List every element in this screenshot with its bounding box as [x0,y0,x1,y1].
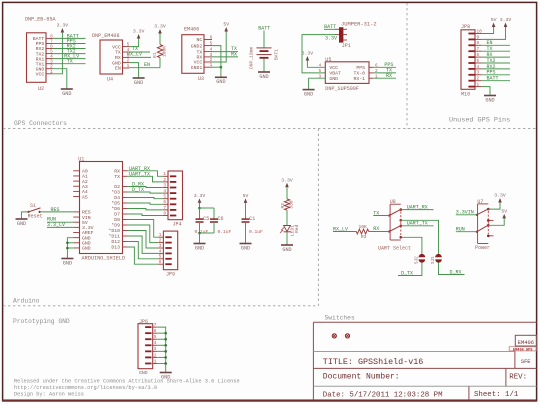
wire net RUN to U1 5V pin [47,221,73,223]
svg-text:BAT1: BAT1 [273,49,279,60]
wire net RX R3 to U8 [369,231,390,233]
svg-text:RX_LV: RX_LV [127,52,142,58]
wire LED1 to ground [286,232,288,245]
svg-text:BATT: BATT [324,24,336,30]
wire U1.D5 to JP4 pin6 [127,203,163,204]
connector U2 DNP_EB-85A [27,33,47,83]
EM406 GPS strip [509,347,536,351]
wire JP8 pin1 to ground [481,87,490,96]
wire U1.D10 to JP9 pin3 [127,231,158,249]
wire net TX to U8 [373,215,389,217]
svg-text:VCC: VCC [329,65,338,71]
wire net PPS from U5 [373,66,396,68]
svg-text:3.3V: 3.3V [325,36,337,42]
svg-text:3.3VIN: 3.3VIN [456,210,474,216]
svg-text:Document Number:: Document Number: [323,372,400,381]
wire U4 GND [129,63,139,78]
svg-text:10K: 10K [359,224,368,230]
svg-text:5: 5 [319,69,322,74]
svg-text:A2: A2 [82,179,88,185]
wire net 3.3V to JP1 and down to U5 VBAT [302,35,335,73]
svg-text:DNP_12mm: DNP_12mm [249,47,255,69]
svg-text:EM406: EM406 [184,27,199,33]
wire net UART_RX from U8 [401,209,434,211]
wire 3.3V to caps [199,203,201,208]
ground at U3 [215,76,227,78]
wire U1.D8 to JP9 pin1 [127,220,158,238]
capacitor C6 0.1uF [200,207,215,209]
svg-text:3.3V: 3.3V [500,17,512,23]
svg-text:6: 6 [210,36,213,41]
svg-text:GND: GND [282,247,291,253]
wire U3 GND1 down [212,66,221,68]
wire JP8 pin9 to 3.3V [481,27,506,39]
svg-text:2: 2 [159,239,162,244]
svg-text:U1: U1 [78,156,84,162]
svg-text:D4: D4 [114,195,120,201]
svg-text:8: 8 [163,211,166,216]
wire net UART_RX U1.RX to JP4 pin1 [127,171,163,177]
svg-text:S1: S1 [30,203,36,209]
wire U1.D12 to JP9 pin5 [127,242,158,259]
ground at U2 [61,88,73,90]
svg-text:RES: RES [51,207,60,213]
junction U3 GND [220,66,223,69]
resistor R1 100K [159,34,161,45]
svg-text:RX1: RX1 [36,56,45,62]
ground at U5 [303,89,315,91]
svg-text:0.1uF: 0.1uF [249,229,263,235]
wire net BATT at JP8 [481,80,510,82]
svg-text:GND: GND [82,235,91,241]
svg-text:330: 330 [289,200,295,209]
wire U2 GND [53,69,67,89]
wire net 3.3VIN to U7 [456,214,477,216]
svg-text:D_TX: D_TX [401,270,413,276]
svg-text:TITLE: GPSShield-v16: TITLE: GPSShield-v16 [323,357,424,367]
svg-text:Arduino: Arduino [13,298,40,305]
svg-text:*D5: *D5 [111,201,120,207]
svg-text:A3: A3 [82,184,88,190]
header JP9 [163,231,177,270]
svg-text:REV:: REV: [509,373,527,381]
wire U3 GND2 to GND1 [212,46,221,68]
svg-text:2: 2 [163,178,166,183]
svg-text:6: 6 [159,260,162,265]
svg-text:PPS: PPS [356,65,365,71]
svg-text:3.3V: 3.3V [194,193,206,199]
capacitor C5 0.1uF [199,208,201,219]
wire U2 VCC to 3.3V [53,33,63,74]
svg-text:JP4: JP4 [173,222,182,228]
svg-text:3: 3 [154,347,157,352]
wire net BATT to JP1 [324,28,335,30]
svg-text:GND: GND [241,245,250,251]
svg-text:RX: RX [114,169,120,175]
svg-text:U3: U3 [198,76,204,82]
svg-text:D2: D2 [114,184,120,190]
svg-text:SFE: SFE [521,359,531,365]
ground at JP8 [484,95,496,97]
wire net D_RX from SJ1 [439,262,465,274]
svg-text:DNP_SUP500F: DNP_SUP500F [325,86,359,92]
svg-text:1: 1 [163,172,166,177]
svg-text:5V: 5V [82,220,88,226]
svg-text:http://creativecommons.org/lic: http://creativecommons.org/licenses/by-s… [14,385,157,391]
wire net RX at JP8 [481,56,510,58]
wire U1.D4 to JP4 pin5 [127,198,163,199]
ground at U1 [61,258,73,260]
svg-text:3.3V: 3.3V [302,51,314,57]
wire S1 to ground [22,212,29,219]
svg-text:4: 4 [154,341,157,346]
svg-text:TX: TX [373,210,379,216]
wire U1.D11 to JP9 pin4 [127,236,158,253]
junction U1 GND 2 [66,247,69,250]
svg-text:TX: TX [114,174,120,180]
svg-text:C5: C5 [203,216,209,222]
svg-text:GND: GND [139,370,148,376]
svg-text:SJ1: SJ1 [431,256,436,264]
svg-text:6: 6 [154,329,157,334]
capacitor C1 0.1uF [245,203,247,208]
svg-text:5: 5 [159,255,162,260]
svg-text:GND: GND [329,76,338,82]
wire U1.D13 to JP9 pin6 [127,247,158,264]
svg-text:GND: GND [112,60,121,66]
svg-text:GND: GND [36,66,45,72]
svg-text:5V: 5V [243,193,249,199]
svg-text:ARDUINO_SHIELD: ARDUINO_SHIELD [82,255,126,261]
wire net UART_TX from U8 [401,225,434,227]
wire U7 to 5V [488,218,504,225]
junction U1 GND 1 [66,242,69,245]
solder jumper SJ2 [419,254,426,257]
LED LED1 Red [286,210,288,225]
svg-text:7: 7 [163,206,166,211]
svg-text:2: 2 [477,77,480,82]
ground at LED1 [281,244,293,246]
header JP8 unused GPS pins [461,30,475,90]
svg-text:Red: Red [294,224,300,233]
wire U1.D6 to JP4 pin7 [127,209,163,210]
wire caps to ground [199,233,201,244]
svg-text:Prototyping GND: Prototyping GND [13,318,70,325]
svg-text:R2: R2 [280,203,286,209]
svg-text:5V: 5V [491,17,497,23]
svg-text:GND: GND [62,91,71,97]
svg-text:3.3V: 3.3V [82,225,94,231]
svg-text:JUMPER-31-2: JUMPER-31-2 [341,22,377,28]
svg-text:0.1uF: 0.1uF [218,229,232,235]
svg-text:1: 1 [477,83,480,88]
svg-text:TX: TX [115,50,121,56]
svg-text:U2: U2 [38,86,44,92]
svg-text:3.3V: 3.3V [133,29,145,35]
section divider dashed lines [3,128,536,130]
svg-text:*D3: *D3 [111,190,120,196]
svg-text:*D9: *D9 [111,223,120,229]
svg-text:R1: R1 [152,52,158,58]
solder jumper SJ1 [435,254,442,257]
svg-text:1: 1 [159,233,162,238]
ground at C1 [240,243,252,245]
svg-text:EN: EN [115,66,121,72]
svg-text:GND2: GND2 [191,43,203,49]
ground at BAT1 [258,71,270,73]
wire net D_TX from SJ2 [398,262,422,275]
svg-text:7: 7 [154,323,157,328]
svg-text:A0: A0 [82,169,88,175]
svg-text:EM406 GPS: EM406 GPS [513,348,533,352]
svg-text:D13: D13 [111,245,120,251]
svg-text:VIN: VIN [82,215,91,221]
svg-text:U5: U5 [325,57,331,63]
EM406 part box [515,335,536,346]
wire net TX at JP8 [481,50,510,52]
svg-text:RX: RX [197,55,203,61]
svg-text:GND: GND [485,97,494,103]
junction caps top [198,207,201,210]
svg-text:6: 6 [477,53,480,58]
wire net D_RX U1.D2 to JP4 pin3 [127,187,163,188]
svg-text:BATT: BATT [33,36,45,42]
wire net RX_LV to R3 [333,231,356,233]
wire net D_TX U1.D3 to JP4 pin4 [127,192,163,193]
svg-text:D12: D12 [111,239,120,245]
wire U8 to SJ2 [401,237,422,254]
svg-text:5V: 5V [501,208,507,214]
wire net PPS at JP8 [481,74,510,76]
ground at JP6 [160,372,172,374]
wire net RUN to U7 [456,231,477,233]
svg-text:3: 3 [163,183,166,188]
svg-text:C6: C6 [218,216,224,222]
svg-text:3.3_LV: 3.3_LV [47,222,65,228]
wire net TX from U5 [373,72,396,74]
svg-text:*D11: *D11 [108,234,120,240]
svg-text:A4: A4 [82,189,88,195]
wire net RX from U3 [212,56,238,58]
svg-text:100K: 100K [162,46,168,57]
fiducial mark 2 [345,334,349,338]
svg-text:JP6: JP6 [139,319,148,325]
svg-text:RX_LV: RX_LV [333,226,348,232]
svg-text:DNP_EB-85A: DNP_EB-85A [25,17,57,23]
svg-text:5: 5 [163,195,166,200]
svg-text:Power: Power [475,245,490,251]
svg-text:RX: RX [386,73,392,79]
ground at U4 [133,77,145,79]
svg-text:3: 3 [159,244,162,249]
svg-text:Switches: Switches [325,315,355,322]
wire U5 GND [309,78,326,89]
svg-text:*D10: *D10 [108,228,120,234]
svg-text:RUN: RUN [456,226,465,232]
wire U1 GND pins bus [67,238,73,259]
svg-text:R3: R3 [361,234,367,240]
wire JP6 pins to GND bus [157,327,166,372]
wire net TX2 at JP8 [481,62,510,64]
svg-text:TX-0: TX-0 [353,71,365,77]
svg-text:EM406: EM406 [518,340,534,346]
module U5 DNP_SUP500F [325,62,369,84]
wire net UART_TX U1.TX to JP4 pin2 [127,176,163,182]
svg-text:RX2: RX2 [36,46,45,52]
svg-text:Date: 5/17/2011 12:03:28 PM: Date: 5/17/2011 12:03:28 PM [323,392,443,400]
svg-text:RX: RX [373,226,379,232]
svg-text:VCC: VCC [36,72,45,78]
resistor R3 10K [356,229,368,234]
wire net 3.3_LV to U1 3.3V pin [47,226,73,228]
svg-text:VBAT: VBAT [329,71,341,77]
svg-text:1: 1 [154,359,157,364]
wire U3 VCC to 5V [212,32,226,63]
wire U7 to 3.3V [488,203,500,210]
svg-text:Unused GPS Pins: Unused GPS Pins [449,117,510,125]
connector U3 EM406 [182,35,204,74]
svg-text:5: 5 [154,335,157,340]
svg-text:3.3V: 3.3V [154,24,166,30]
svg-text:GND: GND [82,241,91,247]
title block frame [313,321,536,323]
wire U4 VCC to 3.3V [129,39,139,47]
svg-text:RX: RX [231,51,237,57]
wire net TX from U3 [212,51,238,53]
svg-text:NC: NC [197,37,203,43]
wire U1.D7 to JP4 pin8 [127,214,163,216]
svg-text:GND: GND [259,74,268,80]
svg-text:GND: GND [195,245,204,251]
svg-text:Reset: Reset [28,214,43,220]
wire net RX from U5 [373,77,396,79]
svg-text:VCC: VCC [112,44,121,50]
wire R1 to EN [159,58,161,68]
svg-text:D7: D7 [114,212,120,218]
svg-text:*D6: *D6 [111,206,120,212]
svg-text:Sheet: 1/1: Sheet: 1/1 [474,391,519,399]
svg-text:TX: TX [197,49,203,55]
svg-text:BATT: BATT [487,76,499,82]
wire U1.D9 to JP9 pin2 [127,225,158,243]
svg-text:GND: GND [82,246,91,252]
svg-text:GPS Connectors: GPS Connectors [14,120,67,127]
svg-text:4: 4 [477,65,480,70]
svg-text:JP9: JP9 [166,272,175,278]
IC U1 ARDUINO_SHIELD [80,162,123,254]
svg-text:UART_TX: UART_TX [407,221,428,227]
fiducial mark 1 [332,334,336,338]
wire U8 to SJ1 [401,220,439,254]
svg-text:5V: 5V [223,22,229,28]
svg-text:6: 6 [163,200,166,205]
svg-text:M10: M10 [461,91,470,97]
svg-text:0.1uF: 0.1uF [195,229,209,235]
svg-text:TX: TX [67,59,73,65]
connector U4 DNP_EM408 [100,40,123,74]
svg-text:D_RX: D_RX [450,269,462,275]
svg-text:SJ2: SJ2 [414,256,419,264]
svg-text:4: 4 [159,249,162,254]
svg-text:GND: GND [304,91,313,97]
svg-text:GND: GND [63,260,72,266]
svg-text:JP1: JP1 [342,43,351,49]
wire net TX from U4 [129,51,150,53]
svg-text:GND: GND [134,80,143,86]
svg-text:D_TX: D_TX [132,187,144,193]
svg-text:2: 2 [154,353,157,358]
svg-text:U4: U4 [107,77,113,83]
wire U2 nets BATT PPS RX2 TX2 RX_LV TX [53,37,86,39]
resistor R2 330 [286,187,288,199]
svg-text:GND: GND [216,79,225,85]
wire net EN at JP8 [481,44,510,46]
wire JP8 pin10 to 5V [481,27,494,34]
svg-text:UART Select: UART Select [378,245,411,251]
svg-text:3.3V: 3.3V [281,177,293,183]
svg-text:D8: D8 [114,217,120,223]
svg-text:8: 8 [477,41,480,46]
wire net RES S1 to U1 [40,211,74,213]
svg-text:GND: GND [17,221,26,227]
wire net EN from U4 [129,67,160,69]
svg-text:UART_TX: UART_TX [129,172,150,178]
svg-text:3: 3 [477,71,480,76]
svg-text:RES: RES [82,210,91,216]
svg-text:7: 7 [477,47,480,52]
svg-text:3.3V: 3.3V [57,23,69,29]
svg-text:A1: A1 [82,174,88,180]
svg-text:DNP_EM408: DNP_EM408 [92,33,120,39]
svg-text:GND1: GND1 [191,65,203,71]
header JP6 prototyping GND [138,324,153,369]
svg-text:VCC: VCC [194,60,203,66]
svg-text:Design by: Aaron Weiss: Design by: Aaron Weiss [14,392,84,398]
svg-text:A5: A5 [82,194,88,200]
svg-text:3.3V: 3.3V [494,193,506,199]
svg-text:AREF: AREF [82,230,94,236]
svg-text:EN: EN [144,62,150,68]
svg-text:UART_RX: UART_RX [407,204,428,210]
svg-text:9: 9 [477,35,480,40]
wire net RX2 at JP8 [481,68,510,70]
wire net RX_LV from U4 [129,56,151,58]
svg-text:JP8: JP8 [461,24,470,30]
svg-text:1: 1 [127,64,130,69]
junction caps bottom [198,232,201,235]
svg-text:RX: RX [115,55,121,61]
ground at C5 C6 [194,243,206,245]
svg-text:Released under the Creative Co: Released under the Creative Commons Attr… [14,379,240,385]
svg-text:RX-1: RX-1 [353,76,365,82]
ground at S1 [16,218,28,220]
svg-text:5: 5 [477,59,480,64]
svg-text:C1: C1 [249,216,255,222]
svg-text:4: 4 [163,189,166,194]
wire U5 VCC to 3.3V [307,61,325,68]
header JP4 [168,171,183,220]
